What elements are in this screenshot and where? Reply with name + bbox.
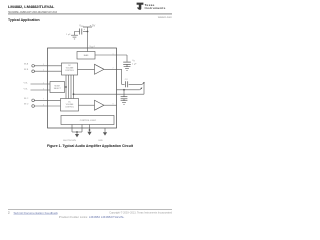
wire CS to ground <box>75 32 80 36</box>
wire to output cap CO <box>122 83 125 85</box>
svg-text:5: 5 <box>43 82 44 84</box>
IC boundary U1 <box>48 48 117 128</box>
svg-text:IN C: IN C <box>24 98 29 100</box>
op-amp A2 <box>95 100 105 110</box>
svg-text:1 µF: 1 µF <box>66 34 71 36</box>
wire stub gnd1 <box>89 125 91 132</box>
bypass cap CB wires <box>126 55 128 62</box>
op-amp A1 <box>95 64 105 74</box>
svg-text:BIAS: BIAS <box>84 54 89 57</box>
svg-text:IN B: IN B <box>24 69 29 71</box>
node dot bus1 <box>65 86 67 88</box>
svg-text:IN A: IN A <box>24 62 29 65</box>
wire CO to jack tip <box>129 83 143 85</box>
wire B ring <box>117 89 140 91</box>
capacitor C2 plates <box>121 96 128 98</box>
svg-text:Product Folder Links: LM4882: Product Folder Links: LM4882 LM4882ITLEV… <box>59 215 125 219</box>
svg-text:IN D: IN D <box>24 103 29 105</box>
svg-text:1: 1 <box>113 53 114 55</box>
bias block <box>77 52 95 60</box>
svg-text:9: 9 <box>113 104 114 106</box>
svg-text:SELECT: SELECT <box>54 88 62 90</box>
svg-text:Instruments: Instruments <box>145 6 166 10</box>
block A text <box>65 65 74 72</box>
wire blockA to amp1 <box>78 68 95 70</box>
ground CB <box>124 66 131 68</box>
jack ring contact <box>140 88 142 90</box>
wire input B1 <box>34 99 60 101</box>
footer rule <box>8 209 172 211</box>
jack tip contact <box>142 83 144 85</box>
ground arrow 1 <box>87 132 91 135</box>
node dot VDD <box>87 31 89 33</box>
wire sense to jack sleeve <box>74 93 145 95</box>
schematic small text labels <box>24 24 138 142</box>
wire to bypass cap CS <box>83 31 88 33</box>
mode block <box>50 82 65 93</box>
bus wire 4 <box>73 75 75 99</box>
wire bias to bypass pin <box>95 54 127 56</box>
TI logo <box>137 3 166 10</box>
jack body <box>143 83 145 95</box>
bus wire 3 <box>70 75 72 99</box>
wire stub SD2 <box>81 125 83 133</box>
svg-text:Figure 1. Typical Audio Amplif: Figure 1. Typical Audio Amplifier Applic… <box>47 144 134 148</box>
wire amp1 out <box>104 69 122 84</box>
svg-text:Typical Application: Typical Application <box>8 18 40 22</box>
wire stub SD1 <box>71 125 73 133</box>
svg-text:CONTROL: CONTROL <box>65 70 74 72</box>
svg-text:4: 4 <box>43 70 44 72</box>
svg-text:Copyright © 2003–2013, Texas I: Copyright © 2003–2013, Texas Instruments… <box>109 211 172 214</box>
ground arrow SD <box>75 134 79 137</box>
node dot vertical4 <box>73 93 75 95</box>
wire SD tie <box>72 131 82 133</box>
power rail bar <box>83 26 92 28</box>
ground arrow 2 <box>103 132 107 135</box>
svg-text:CONTROL LOGIC: CONTROL LOGIC <box>80 120 97 122</box>
svg-text:LM4882, LM4882ITLEVAL: LM4882, LM4882ITLEVAL <box>8 4 55 9</box>
wire into bias <box>87 48 89 52</box>
bus wire 1 <box>65 75 67 99</box>
wire mode in2 <box>31 89 51 91</box>
svg-text:www.ti.com: www.ti.com <box>158 15 173 19</box>
terminal input B2 <box>32 105 35 108</box>
svg-text:SHUTDOWN: SHUTDOWN <box>63 140 76 142</box>
ground (supply) <box>71 34 78 36</box>
mode block text <box>54 85 62 90</box>
wire amp2 out <box>104 104 117 106</box>
input block A <box>62 63 78 75</box>
svg-text:GND: GND <box>98 140 103 142</box>
terminal input B1 <box>32 99 35 102</box>
node dot SD <box>76 131 78 133</box>
bus wire 2 <box>68 75 70 99</box>
svg-text:1 µF: 1 µF <box>132 63 137 65</box>
node dot gnd1 <box>89 129 91 131</box>
wire blockB to amp2 <box>79 104 95 106</box>
svg-text:3: 3 <box>43 64 44 66</box>
terminal input A2 <box>32 70 35 73</box>
wire mode to bus <box>65 86 67 88</box>
svg-text:VOL: VOL <box>24 88 29 90</box>
control logic block <box>61 116 114 125</box>
header rule <box>8 13 172 15</box>
wire SD down <box>76 132 78 134</box>
wire VDD down <box>87 27 89 48</box>
svg-text:CONTROL: CONTROL <box>65 107 74 109</box>
block B text <box>65 102 74 109</box>
block texts <box>54 54 97 122</box>
node junction dot <box>123 89 125 91</box>
input block B <box>61 99 79 112</box>
svg-text:VOL: VOL <box>24 82 29 84</box>
wire input A1 <box>34 65 61 67</box>
svg-text:= 5V: = 5V <box>90 24 96 28</box>
svg-text:2: 2 <box>113 68 114 70</box>
svg-text:6: 6 <box>43 88 44 90</box>
wire gnd3 <box>104 128 106 132</box>
ground C2 <box>121 100 128 102</box>
capacitor CS plates <box>81 29 83 35</box>
wire input B2 <box>34 105 60 107</box>
svg-text:7: 7 <box>43 99 44 101</box>
capacitor CO plates <box>125 81 127 87</box>
wire mode in1 <box>31 83 51 85</box>
svg-text:Submit Documentation Feedback: Submit Documentation Feedback <box>14 211 59 215</box>
wire input A2 <box>34 70 61 72</box>
wire down to cap C2 <box>123 90 125 97</box>
terminal input A1 <box>32 65 35 68</box>
svg-text:8: 8 <box>43 104 44 106</box>
capacitor CB plates <box>123 61 131 63</box>
